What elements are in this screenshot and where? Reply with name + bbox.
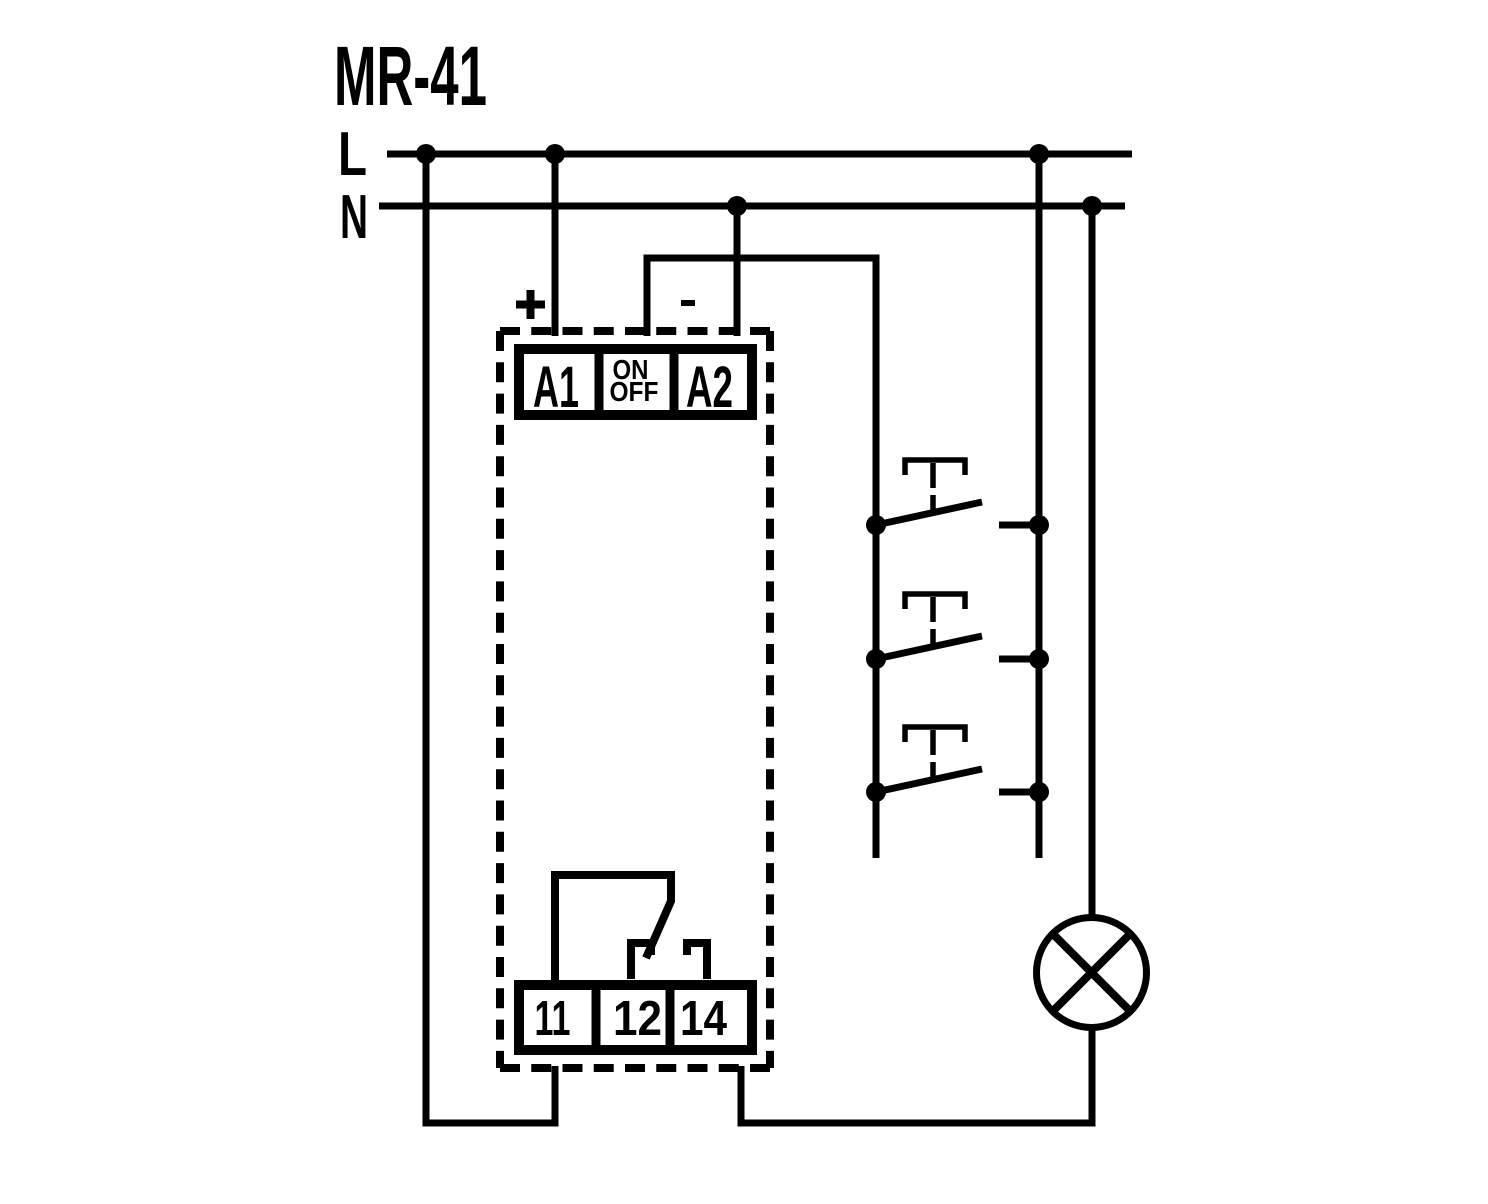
svg-text:A2: A2 [686,355,733,420]
svg-text:N: N [340,183,368,252]
svg-text:L: L [338,120,367,189]
svg-text:12: 12 [613,992,662,1046]
svg-text:11: 11 [535,992,571,1046]
svg-text:MR-41: MR-41 [334,29,487,123]
svg-text:OFF: OFF [610,376,659,407]
svg-text:14: 14 [680,992,727,1046]
svg-text:A1: A1 [533,355,579,420]
